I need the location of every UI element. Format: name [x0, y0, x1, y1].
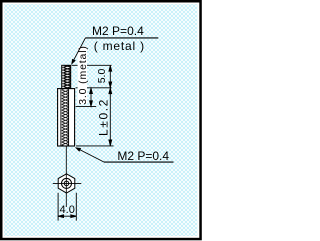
dimension line 4.0 [58, 215, 76, 218]
svg-text:L±0.2: L±0.2 [96, 98, 110, 136]
svg-text:M2 P=0.4: M2 P=0.4 [92, 24, 144, 38]
hatched drawing background [4, 4, 197, 236]
page background [0, 0, 202, 241]
leader to top M2 label [71, 38, 85, 65]
chamfer circle [62, 178, 72, 188]
horizontal centerline [53, 182, 82, 184]
dimension line L±0.2 [109, 88, 112, 145]
extension line top of stud [72, 64, 112, 66]
dimension line 3.0 [90, 88, 93, 106]
white knockout behind rotated 3.0(metal) text [78, 47, 87, 105]
extension line top of body [76, 87, 112, 89]
underline top label [85, 37, 158, 39]
svg-text:5.0: 5.0 [96, 69, 108, 84]
extension lines 4.0 [58, 193, 76, 221]
svg-text:( metal ): ( metal ) [94, 39, 145, 53]
svg-text:3.0 (metal): 3.0 (metal) [77, 45, 89, 105]
vertical centerline [65, 146, 67, 207]
internal thread of body [61, 89, 69, 145]
svg-text:M2 P=0.4: M2 P=0.4 [117, 149, 169, 163]
leader to bottom M2 label [75, 147, 104, 162]
hex body (side view) [58, 89, 75, 146]
extension line 3.0 lower bound [76, 106, 97, 108]
thread hole circle [64, 181, 69, 186]
dimension line 5.0 [109, 66, 112, 88]
svg-text:4.0: 4.0 [60, 204, 75, 216]
underline bottom label [104, 161, 174, 163]
border frame [1, 1, 200, 239]
threaded stud (side view) [62, 65, 71, 88]
extension line bottom of body [76, 145, 114, 147]
hexagon end view [58, 174, 75, 193]
